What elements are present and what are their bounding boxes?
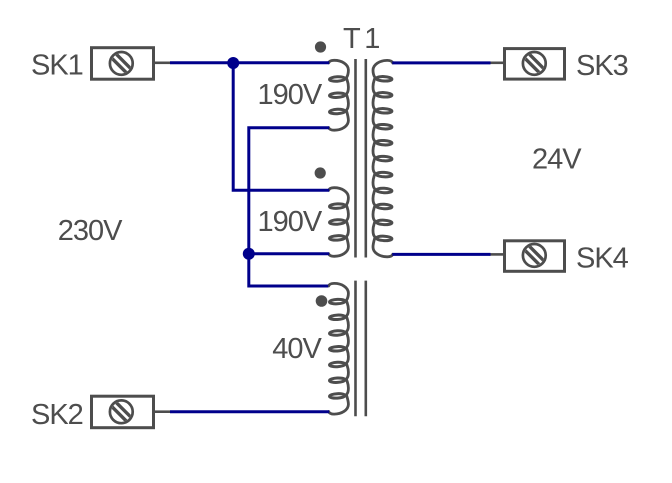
svg-text:190V: 190V [258,206,323,238]
svg-text:190V: 190V [258,79,323,111]
svg-text:230V: 230V [58,215,123,247]
svg-text:40V: 40V [272,333,322,365]
svg-text:SK1: SK1 [31,50,83,82]
svg-text:SK2: SK2 [31,399,83,431]
svg-text:24V: 24V [532,143,582,175]
svg-text:SK4: SK4 [576,243,629,275]
svg-text:T1: T1 [343,23,384,55]
svg-text:SK3: SK3 [576,50,628,82]
